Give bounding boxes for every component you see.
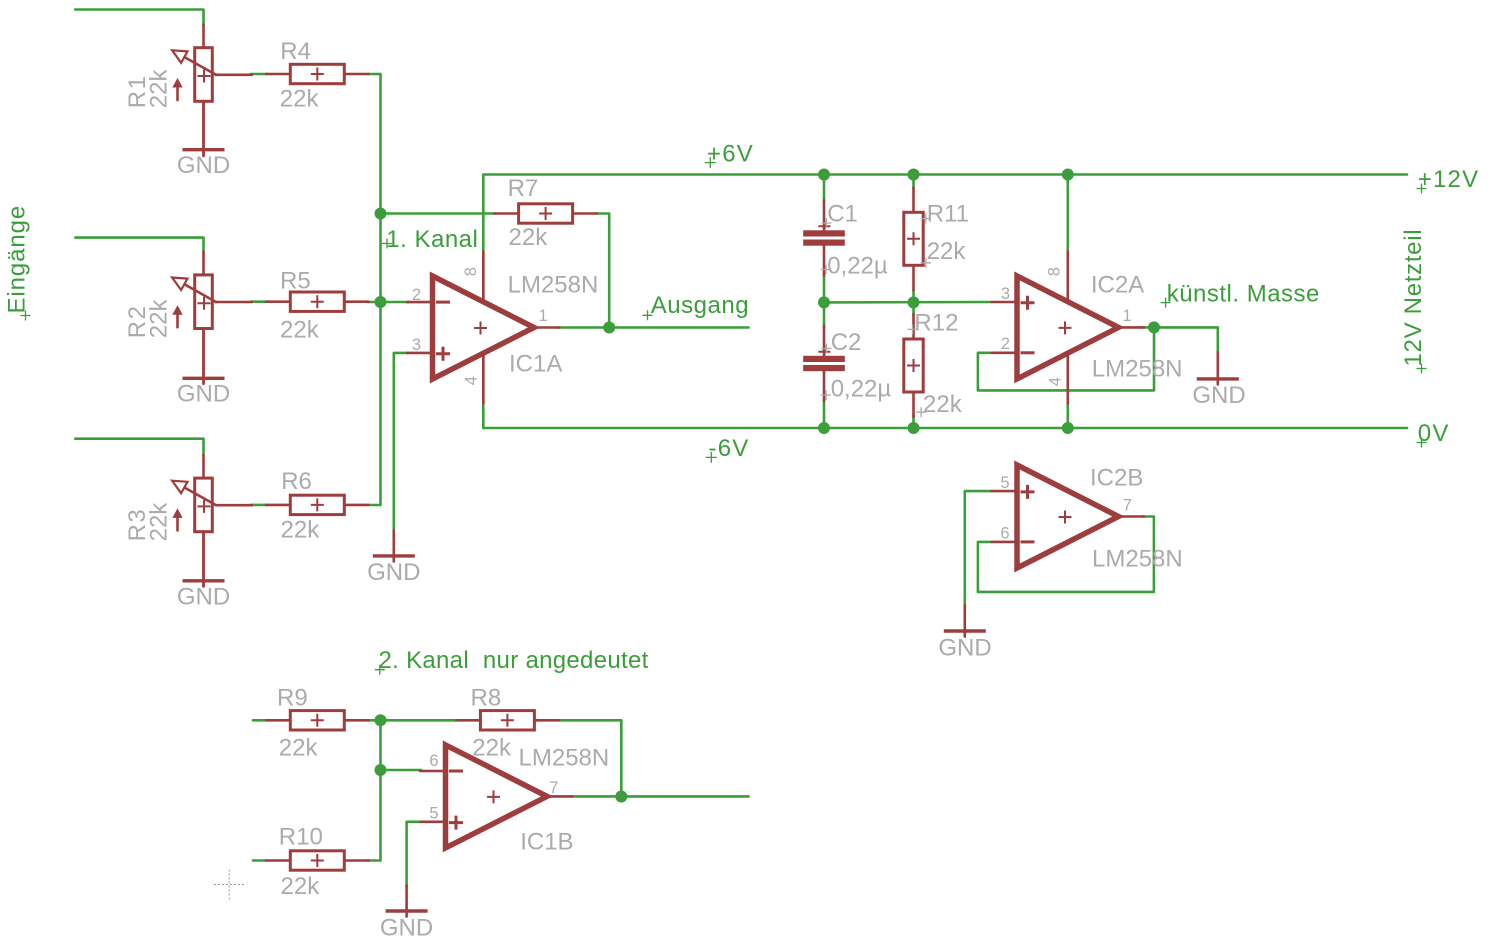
- label R12 name: [914, 309, 958, 336]
- wire IC1A pin3 to GND: [394, 353, 408, 531]
- svg-text:IC1B: IC1B: [520, 828, 573, 855]
- capacitor C1: [803, 200, 845, 275]
- svg-text:GND: GND: [177, 152, 230, 179]
- pin number IC1B 6: [429, 752, 438, 770]
- label R12 origin cross: [908, 324, 918, 334]
- wire IC1B output: [571, 795, 748, 798]
- label R5 value 22k: [280, 316, 320, 343]
- pin number IC2A 1: [1123, 307, 1132, 325]
- svg-text:0,22µ: 0,22µ: [831, 376, 892, 403]
- pin number IC1A 3: [412, 336, 421, 354]
- svg-text:R8: R8: [471, 685, 502, 712]
- label R8 name: [471, 685, 502, 712]
- net label +6V origin cross: [705, 157, 716, 168]
- junction dot 1: [375, 208, 387, 220]
- label R12 value 22k: [923, 391, 963, 418]
- svg-text:22k: 22k: [281, 873, 321, 900]
- resistor R9: [266, 711, 368, 730]
- label R6 name: [281, 468, 312, 495]
- net label +12V: [1418, 166, 1480, 193]
- label C1 value 0,22µ: [827, 252, 888, 279]
- resistor R8: [456, 711, 558, 730]
- junction dot 3: [603, 322, 615, 334]
- svg-text:7: 7: [1123, 496, 1132, 514]
- svg-text:22k: 22k: [281, 516, 321, 543]
- label C2 value origin cross: [821, 390, 831, 400]
- label R2 name: [124, 305, 151, 339]
- svg-text:1: 1: [1123, 307, 1132, 325]
- wire R11 top: [912, 175, 915, 189]
- svg-text:Ausgang: Ausgang: [651, 292, 749, 319]
- wire IC1A pin4 to 0V rail: [482, 354, 485, 428]
- svg-text:künstl. Masse: künstl. Masse: [1167, 281, 1320, 308]
- wire IC1A output Ausgang: [558, 326, 748, 329]
- wire R1 wiper to R4: [251, 73, 267, 76]
- svg-text:R7: R7: [508, 175, 539, 202]
- net label 12V Netzteil origin cross: [1417, 364, 1427, 374]
- wire IC2B output feedback loop: [978, 517, 1154, 592]
- label IC1A name: [509, 351, 562, 378]
- label R3 name: [124, 508, 151, 542]
- pin number IC1B 7: [549, 779, 558, 797]
- label GND kuenstl Masse: [1192, 382, 1245, 409]
- svg-text:3: 3: [412, 336, 421, 354]
- label R7 value 22k: [509, 224, 549, 251]
- svg-text:6: 6: [1000, 525, 1009, 543]
- wire R8 right to output: [558, 720, 621, 796]
- label R8 value 22k: [472, 734, 512, 761]
- label C1 origin cross: [822, 218, 832, 228]
- net label kuenstl. Masse: [1167, 281, 1320, 308]
- net label Ausgang: [651, 292, 749, 319]
- ground IC1B pin5: [386, 886, 428, 917]
- wire IC1B pin5 to GND: [407, 822, 422, 886]
- ground under R3: [183, 532, 225, 587]
- svg-text:R5: R5: [280, 268, 311, 295]
- svg-text:R4: R4: [280, 38, 311, 65]
- svg-text:0,22µ: 0,22µ: [827, 252, 888, 279]
- svg-text:1. Kanal: 1. Kanal: [386, 226, 478, 253]
- svg-text:GND: GND: [367, 559, 420, 586]
- resistor R7: [494, 204, 596, 223]
- label R11 name: [927, 201, 969, 228]
- junction dot 14: [375, 764, 387, 776]
- svg-text:R6: R6: [281, 468, 312, 495]
- svg-text:22k: 22k: [280, 316, 320, 343]
- junction dot 8: [908, 296, 920, 308]
- net label 1. Kanal: [386, 226, 478, 253]
- svg-text:GND: GND: [177, 584, 230, 611]
- wire input 2 net: [75, 238, 203, 252]
- wire R3 wiper to R6: [251, 504, 267, 507]
- resistor R12: [904, 314, 923, 416]
- label R1 value 22k: [146, 69, 173, 109]
- net label 12V Netzteil: [1400, 229, 1427, 367]
- svg-text:R9: R9: [277, 685, 308, 712]
- potentiometer R3: [172, 455, 252, 586]
- svg-text:GND: GND: [938, 635, 991, 662]
- svg-text:5: 5: [1000, 474, 1009, 492]
- label R9 value 22k: [279, 734, 319, 761]
- pin number IC2B 7: [1123, 496, 1132, 514]
- svg-text:5: 5: [429, 805, 438, 823]
- net label 0V origin cross: [1417, 438, 1427, 448]
- svg-text:7: 7: [549, 779, 558, 797]
- wire R9 out to node: [368, 719, 381, 722]
- pin number IC2A 8: [1045, 267, 1063, 276]
- wire C2 bottom: [823, 400, 826, 428]
- net label 1. Kanal origin cross: [382, 239, 392, 249]
- net label 0V: [1418, 420, 1450, 447]
- svg-text:22k: 22k: [146, 502, 173, 542]
- junction dot 4: [818, 169, 830, 181]
- wire IC2A feedback loop: [978, 327, 1154, 390]
- pin number IC1A 2: [412, 286, 421, 304]
- svg-text:GND: GND: [1192, 382, 1245, 409]
- svg-text:12V Netzteil: 12V Netzteil: [1400, 229, 1427, 367]
- op-amp IC2A power pins 8 4: [1067, 251, 1070, 403]
- wire input 1 net: [75, 10, 203, 26]
- svg-text:+12V: +12V: [1418, 166, 1480, 193]
- wire R10 left stub: [253, 859, 267, 862]
- op-amp IC2A: [992, 276, 1144, 379]
- label R10 value 22k: [281, 873, 321, 900]
- sheet origin cross: [214, 870, 245, 901]
- label R11 value 22k: [927, 238, 967, 265]
- svg-text:22k: 22k: [146, 299, 173, 339]
- op-amp IC1B: [420, 745, 572, 848]
- label IC2B LM258N: [1092, 546, 1183, 573]
- label R1 name: [124, 75, 151, 109]
- svg-text:8: 8: [462, 267, 480, 276]
- svg-text:C2: C2: [831, 329, 862, 356]
- label R4 name: [280, 38, 311, 65]
- resistor R4: [266, 64, 368, 83]
- svg-text:4: 4: [463, 376, 481, 385]
- junction dot 12: [1062, 422, 1074, 434]
- net label -6V origin cross: [706, 452, 717, 463]
- svg-text:C1: C1: [827, 201, 858, 228]
- wire C2 top: [823, 302, 826, 327]
- svg-text:-6V: -6V: [709, 435, 750, 462]
- ground under R1: [183, 101, 225, 155]
- wire R7 right to output node: [596, 214, 609, 328]
- wire node to IC1B pin6: [381, 769, 422, 772]
- wire IC2A output to GND: [1143, 327, 1218, 353]
- wire 2nd channel node vertical: [368, 720, 381, 860]
- wire IC2B pin5 to GND: [965, 491, 991, 606]
- junction dot 13: [375, 714, 387, 726]
- junction dot 7: [818, 296, 830, 308]
- junction dot 5: [908, 169, 920, 181]
- ground IC2B: [944, 605, 986, 637]
- wire R5 out to node: [368, 301, 381, 304]
- svg-text:22k: 22k: [279, 734, 319, 761]
- pin number IC2A 3: [1001, 285, 1010, 303]
- wire +6V rail: [483, 175, 1407, 302]
- label IC2A LM258N: [1092, 355, 1183, 382]
- pin number IC2B 6: [1000, 525, 1009, 543]
- net label +6V: [707, 140, 754, 167]
- resistor R6: [266, 495, 368, 514]
- label GND R3: [177, 584, 230, 611]
- pin number IC1A 8: [462, 267, 480, 276]
- label R12 value origin cross: [916, 407, 926, 417]
- label R5 name: [280, 268, 311, 295]
- net label 2. Kanal nur angedeutet: [379, 647, 649, 674]
- pin number IC2A 4: [1046, 377, 1064, 386]
- op-amp IC1A power pins 8 4: [482, 252, 485, 404]
- wire R11 bottom: [912, 290, 915, 303]
- wire input 3 net: [75, 439, 203, 455]
- svg-text:Eingänge: Eingänge: [4, 205, 31, 314]
- label IC2A name: [1091, 271, 1144, 298]
- wire R2 wiper to R5: [251, 300, 267, 303]
- svg-text:IC2A: IC2A: [1091, 271, 1144, 298]
- label IC1B name: [520, 828, 573, 855]
- net label kuenstl. Masse origin cross: [1161, 298, 1171, 308]
- svg-text:GND: GND: [380, 915, 433, 942]
- label GND IC2B: [938, 635, 991, 662]
- label R4 value 22k: [280, 86, 320, 113]
- svg-text:LM258N: LM258N: [508, 272, 599, 299]
- ground IC1A pin3: [373, 530, 415, 561]
- label R6 value 22k: [281, 516, 321, 543]
- svg-text:GND: GND: [177, 381, 230, 408]
- net label +12V origin cross: [1417, 184, 1427, 194]
- svg-text:22k: 22k: [146, 69, 173, 109]
- junction dot 6: [1062, 169, 1074, 181]
- wire C1 top: [823, 175, 826, 202]
- svg-text:1: 1: [539, 307, 548, 325]
- op-amp IC2B: [992, 465, 1144, 568]
- pin number IC1A 1: [539, 307, 548, 325]
- label R11 origin cross: [921, 214, 931, 224]
- wire R12 top: [912, 302, 915, 316]
- wire IC2A pin8 supply: [1067, 175, 1070, 253]
- net label -6V: [709, 435, 750, 462]
- wire summing node vertical: [368, 74, 381, 505]
- svg-text:2: 2: [1001, 335, 1010, 353]
- resistor R5: [266, 292, 368, 311]
- wire R9 left stub: [253, 719, 267, 722]
- svg-text:2. Kanal nur angedeutet: 2. Kanal nur angedeutet: [379, 647, 649, 674]
- svg-text:LM258N: LM258N: [519, 745, 610, 772]
- net label 2. Kanal origin cross: [375, 665, 385, 675]
- svg-text:2: 2: [412, 286, 421, 304]
- label IC1A LM258N: [508, 272, 599, 299]
- pin number IC1B 5: [429, 805, 438, 823]
- resistor R11: [904, 188, 923, 290]
- wire C1 bottom: [823, 275, 826, 303]
- label R2 value 22k: [146, 299, 173, 339]
- label GND IC1B pin5: [380, 915, 433, 942]
- wire node to R7 left: [381, 212, 496, 215]
- pin number IC2A 2: [1001, 335, 1010, 353]
- label C2 origin cross: [822, 344, 832, 354]
- label R11 value origin cross: [921, 258, 931, 268]
- svg-text:R11: R11: [927, 201, 969, 228]
- label GND IC1A pin3: [367, 559, 420, 586]
- junction dot 9: [1148, 321, 1160, 333]
- svg-text:IC2B: IC2B: [1090, 465, 1143, 492]
- junction dot 15: [615, 791, 627, 803]
- svg-text:LM258N: LM258N: [1092, 355, 1183, 382]
- ground under R2: [183, 328, 225, 384]
- label IC1B LM258N: [519, 745, 610, 772]
- net label Ausgang origin cross: [643, 310, 653, 320]
- junction dot 11: [908, 422, 920, 434]
- svg-text:LM258N: LM258N: [1092, 546, 1183, 573]
- potentiometer R2: [172, 252, 252, 383]
- wire mid rail kuenstl Masse: [824, 301, 991, 304]
- pin number IC1A 4: [463, 376, 481, 385]
- svg-text:22k: 22k: [927, 238, 967, 265]
- potentiometer R1: [172, 25, 252, 156]
- label C2 name: [831, 329, 862, 356]
- svg-text:22k: 22k: [509, 224, 549, 251]
- svg-text:4: 4: [1046, 377, 1064, 386]
- label R9 name: [277, 685, 308, 712]
- junction dot 10: [818, 422, 830, 434]
- svg-text:22k: 22k: [472, 734, 512, 761]
- net label Eingaenge origin cross: [21, 311, 31, 321]
- wire 0V rail: [483, 427, 1407, 430]
- svg-text:22k: 22k: [923, 391, 963, 418]
- svg-text:8: 8: [1045, 267, 1063, 276]
- resistor R10: [266, 851, 368, 870]
- capacitor C2: [803, 326, 845, 401]
- svg-text:R10: R10: [279, 823, 323, 850]
- wire IC2A pin4 supply: [1067, 403, 1070, 428]
- label IC2B name: [1090, 465, 1143, 492]
- label R10 name: [279, 823, 323, 850]
- svg-text:3: 3: [1001, 285, 1010, 303]
- pin number IC2B 5: [1000, 474, 1009, 492]
- label C1 value origin cross: [821, 265, 831, 275]
- svg-text:22k: 22k: [280, 86, 320, 113]
- label R7 name: [508, 175, 539, 202]
- label C2 value 0,22µ: [831, 376, 892, 403]
- svg-text:IC1A: IC1A: [509, 351, 562, 378]
- wire node to IC1A pin2: [381, 301, 409, 304]
- wire R12 bottom: [912, 415, 915, 428]
- net label Eingaenge: [4, 205, 31, 314]
- svg-text:6: 6: [429, 752, 438, 770]
- label C1 name: [827, 201, 858, 228]
- wire node to R8 left: [381, 719, 457, 722]
- label GND R2: [177, 381, 230, 408]
- label R3 value 22k: [146, 502, 173, 542]
- op-amp IC1A: [407, 276, 559, 379]
- ground kuenstl Masse: [1197, 352, 1239, 384]
- junction dot 2: [375, 296, 387, 308]
- svg-text:R12: R12: [914, 309, 958, 336]
- label GND R1: [177, 152, 230, 179]
